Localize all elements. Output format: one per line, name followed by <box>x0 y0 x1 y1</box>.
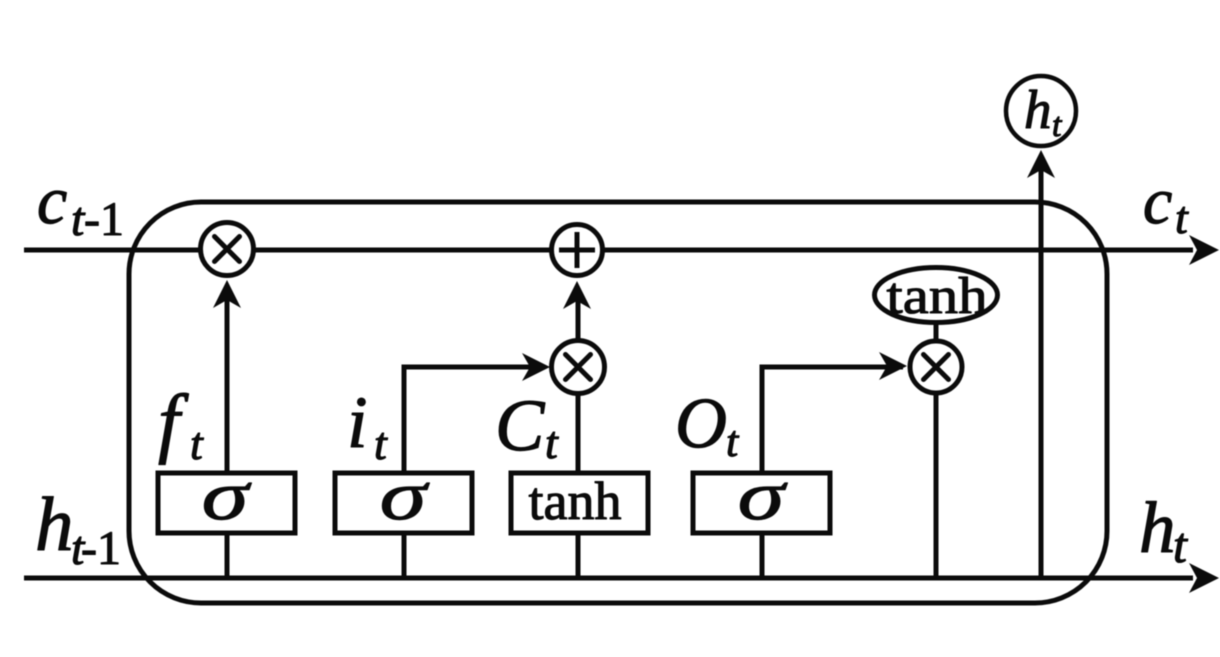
wire: h-line up to sigma box o <box>760 533 765 578</box>
LSTM cell body rounded rectangle <box>129 202 1107 603</box>
wire: h-line up to tanh box <box>576 533 581 578</box>
tanh box (candidate) <box>511 473 648 533</box>
arrowhead h line right end <box>1189 563 1219 593</box>
wire: tanh ellipse down to multiply node X3 <box>934 324 939 341</box>
arrowhead into X1 from below <box>213 280 241 308</box>
sigma box i (input gate) <box>335 473 472 533</box>
wire: sigma box i elbow to multiply node X2 <box>404 367 545 472</box>
wire: sigma box o elbow to multiply node X3 <box>762 367 903 472</box>
label i_t <box>351 398 388 459</box>
arrowhead into h_t circle from below <box>1027 150 1055 178</box>
wire: tanh box up to multiply node X2 <box>576 394 581 472</box>
wire: h-line up to output h_t circle <box>1039 156 1044 578</box>
wire: multiply node X2 up to plus node <box>576 288 581 340</box>
label c_{t-1} <box>39 191 121 236</box>
wire: h-line up to sigma box f <box>225 533 230 578</box>
arrowhead into plus node from below <box>563 281 591 309</box>
plus node on c line <box>552 225 603 276</box>
arrowhead into X2 from left <box>522 353 550 381</box>
sigma box o (output gate) <box>693 473 830 533</box>
label h_{t-1} <box>38 497 118 565</box>
arrowhead into X3 from left <box>879 352 907 380</box>
arrowhead c line right end <box>1189 235 1219 265</box>
label c_t <box>1145 192 1189 234</box>
sigma box f (forget gate) <box>158 473 295 533</box>
wire: multiply node X3 down to h-line <box>934 394 939 578</box>
label C_t <box>499 401 559 458</box>
label O_t <box>679 399 739 456</box>
multiply node X1 (forget gate) on c line <box>201 223 254 276</box>
multiply node X2 (input) <box>552 341 605 394</box>
wire: hidden-state line h (horizontal, y=578) <box>24 576 1193 581</box>
tanh ellipse <box>875 268 998 323</box>
multiply node X3 (output) <box>910 341 962 393</box>
output circle h_t <box>1006 76 1076 146</box>
label h_t <box>1142 501 1188 562</box>
wire: cell-state line c (horizontal, y=250) <box>24 248 1193 253</box>
wire: h-line up to sigma box i <box>402 533 407 578</box>
wire: sigma box f up toward multiply node <box>225 286 230 473</box>
label f_t <box>159 393 204 465</box>
